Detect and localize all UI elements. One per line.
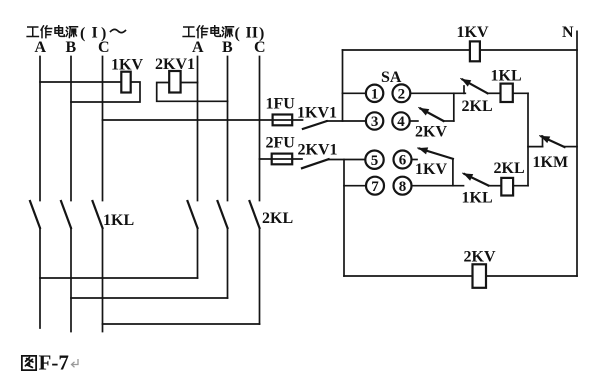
svg-text:B: B: [222, 39, 233, 56]
svg-text:2KV1: 2KV1: [298, 142, 338, 159]
svg-text:B: B: [66, 39, 77, 56]
svg-text:5: 5: [371, 153, 379, 169]
svg-text:A: A: [35, 39, 47, 56]
svg-text:2KL: 2KL: [462, 98, 493, 115]
svg-text:(: (: [80, 25, 85, 42]
svg-text:6: 6: [399, 153, 407, 169]
svg-text:1KV: 1KV: [111, 57, 143, 74]
svg-text:2FU: 2FU: [266, 135, 296, 152]
svg-text:1KL: 1KL: [491, 68, 522, 85]
svg-text:1KM: 1KM: [533, 154, 569, 171]
svg-text:A: A: [192, 39, 204, 56]
svg-text:): ): [101, 25, 106, 42]
svg-text:7: 7: [371, 179, 379, 195]
svg-text:4: 4: [397, 114, 405, 130]
svg-text:2KV: 2KV: [415, 124, 447, 141]
svg-text:8: 8: [399, 179, 407, 195]
svg-text:3: 3: [371, 114, 379, 130]
svg-text:II: II: [246, 25, 258, 42]
svg-text:1KV1: 1KV1: [297, 105, 337, 122]
svg-text:1KL: 1KL: [462, 190, 493, 207]
svg-text:2KL: 2KL: [262, 210, 293, 227]
svg-text:2KV1: 2KV1: [155, 56, 195, 73]
svg-text:F-7: F-7: [39, 351, 69, 375]
svg-text:2KL: 2KL: [494, 160, 525, 177]
svg-text:N: N: [562, 24, 574, 41]
svg-text:I: I: [92, 25, 98, 42]
svg-text:2KV: 2KV: [464, 249, 496, 266]
svg-text:2: 2: [398, 86, 406, 102]
svg-text:1: 1: [371, 86, 379, 102]
svg-text:1KV: 1KV: [415, 161, 447, 178]
svg-text:(: (: [235, 25, 240, 42]
svg-text:SA: SA: [381, 69, 402, 86]
svg-text:1KL: 1KL: [103, 212, 134, 229]
svg-text:1KV: 1KV: [457, 24, 489, 41]
svg-text:): ): [259, 25, 264, 42]
svg-text:1FU: 1FU: [266, 96, 296, 113]
